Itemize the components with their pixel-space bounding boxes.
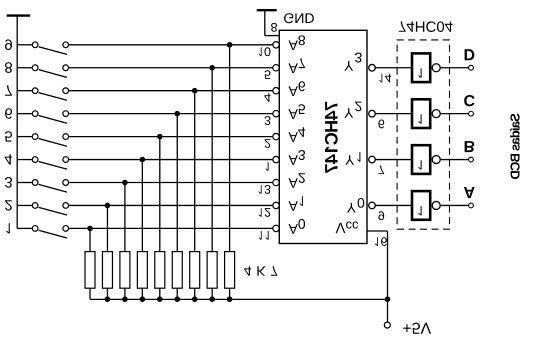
terminal D: [469, 65, 474, 70]
resistor R2 4K7 pull-up: [102, 205, 112, 299]
label A6: [289, 81, 306, 96]
pin number 13: [259, 185, 271, 194]
node rail junction R8: [209, 296, 215, 302]
label 74HC04: [399, 21, 453, 32]
node junction row 5: [157, 134, 163, 140]
resistor R5 4K7 pull-up: [155, 137, 165, 300]
switch S2: [5, 200, 68, 215]
pin A5 input bubble: [273, 110, 279, 116]
pin Y0 output bubble: [369, 202, 376, 209]
pin number 7: [378, 166, 384, 175]
node rail junction R4: [140, 296, 146, 302]
node junction row 8: [209, 65, 215, 71]
pin number 2: [265, 139, 271, 148]
label 74HC147: [325, 102, 338, 173]
value label 4K7: [244, 266, 277, 276]
pin number 12: [259, 208, 271, 217]
wire inverter to terminal B: [441, 159, 469, 161]
wire S3 to IC input: [68, 182, 272, 184]
switch S3: [5, 177, 69, 192]
node junction row 9: [227, 42, 233, 48]
terminal A: [469, 203, 474, 208]
label Y0: [347, 198, 364, 213]
node junction row 6: [174, 111, 180, 117]
pin Y3 output bubble: [369, 64, 376, 71]
wire S2 to IC input: [68, 204, 272, 206]
label Saídas BCD: [510, 114, 520, 180]
pin 8 label: [271, 23, 277, 32]
inverter U2d: [412, 53, 440, 82]
pin number 6: [378, 120, 384, 129]
pin number 9: [378, 211, 384, 220]
wire inverter to terminal D: [441, 67, 469, 69]
node rail junction R6: [174, 296, 180, 302]
ground IC pin 8: [257, 10, 280, 35]
pin 16 label: [375, 237, 387, 246]
node junction row 7: [192, 88, 198, 94]
pin number 14: [380, 74, 392, 83]
resistor R4 4K7 pull-up: [137, 160, 147, 300]
node rail junction R9: [227, 296, 233, 302]
pin number 3: [265, 116, 271, 125]
switch S9: [5, 39, 69, 54]
label A: [464, 187, 475, 198]
pin A3 input bubble: [273, 156, 279, 162]
wire Y2 to inverter: [376, 113, 412, 115]
wire inverter to terminal A: [441, 204, 469, 206]
label A4: [289, 127, 306, 142]
node rail junction R2: [105, 296, 111, 302]
resistor R7 4K7 pull-up: [190, 91, 200, 300]
switch S7: [5, 85, 68, 100]
label A5: [289, 104, 306, 119]
pin A6 input bubble: [273, 88, 279, 94]
wire S5 to IC input: [68, 136, 272, 138]
resistor R9 4K7 pull-up: [225, 45, 235, 300]
wire Y1 to inverter: [376, 159, 412, 161]
pin number 1: [266, 162, 269, 171]
label A1: [289, 196, 303, 211]
pin A8 input bubble: [273, 42, 279, 48]
node junction row 1: [87, 226, 93, 232]
IC U1 74HC147 body: [279, 30, 367, 243]
node junction row 2: [105, 203, 111, 209]
pin number 5: [265, 70, 271, 79]
wire ground rail: [16, 16, 18, 229]
inverter U2a: [412, 191, 440, 220]
node rail junction R7: [192, 296, 198, 302]
switch S8: [5, 62, 69, 77]
label Vcc: [336, 222, 359, 234]
inverter U2b: [412, 145, 440, 174]
node rail junction R5: [157, 296, 163, 302]
label A0: [289, 219, 306, 234]
label A7: [289, 58, 305, 73]
pin A1 input bubble: [273, 202, 279, 208]
label A3: [289, 150, 306, 165]
wire S6 to IC input: [68, 113, 272, 115]
node rail junction R3: [122, 296, 128, 302]
pin A0 input bubble: [273, 225, 279, 231]
IC U2 74HC04 dashed outline: [397, 40, 449, 229]
label Y1: [345, 152, 360, 165]
label A8: [289, 35, 306, 50]
node rail to +5V junction: [385, 296, 391, 302]
inverter U2c: [412, 99, 440, 128]
label A2: [289, 173, 305, 188]
label +5V: [403, 323, 431, 334]
wire Y0 to inverter: [376, 204, 412, 206]
label Y2: [344, 102, 361, 118]
wire S8 to IC input: [68, 67, 272, 69]
resistor R6 4K7 pull-up: [172, 114, 182, 300]
pin A7 input bubble: [273, 65, 279, 71]
terminal C: [469, 111, 474, 116]
wire +5V vertical: [387, 231, 389, 322]
wire S7 to IC input: [68, 90, 272, 92]
pin number 11: [259, 231, 269, 240]
wire +5V rail: [90, 298, 388, 300]
label Y3: [344, 53, 361, 71]
resistor R8 4K7 pull-up: [207, 68, 217, 300]
switch S6: [5, 108, 68, 123]
switch S4: [5, 154, 69, 169]
label GND: [284, 13, 314, 23]
node junction row 4: [140, 157, 146, 163]
pin A2 input bubble: [273, 179, 279, 185]
wire inverter to terminal C: [441, 113, 469, 115]
wire S4 to IC input: [68, 159, 272, 161]
switch S1: [6, 223, 68, 238]
wire S9 to IC input: [68, 44, 272, 46]
node junction row 3: [122, 180, 128, 186]
resistor R3 4K7 pull-up: [120, 183, 130, 300]
terminal +5V: [384, 322, 390, 328]
label B: [465, 141, 475, 152]
wire S1 to IC input: [68, 227, 272, 229]
ground: [7, 14, 31, 16]
label D: [465, 49, 475, 60]
terminal B: [469, 157, 474, 162]
pin A4 input bubble: [273, 133, 279, 139]
wire Vcc pin16 stub: [367, 230, 388, 232]
pin Y2 output bubble: [369, 110, 376, 117]
label C: [464, 95, 474, 106]
switch S5: [5, 131, 69, 146]
pin number 10: [259, 47, 271, 56]
pin number 4: [264, 93, 270, 102]
pin Y1 output bubble: [369, 156, 376, 163]
wire Y3 to inverter: [376, 67, 412, 69]
resistor R1 4K7 pull-up: [85, 228, 95, 299]
